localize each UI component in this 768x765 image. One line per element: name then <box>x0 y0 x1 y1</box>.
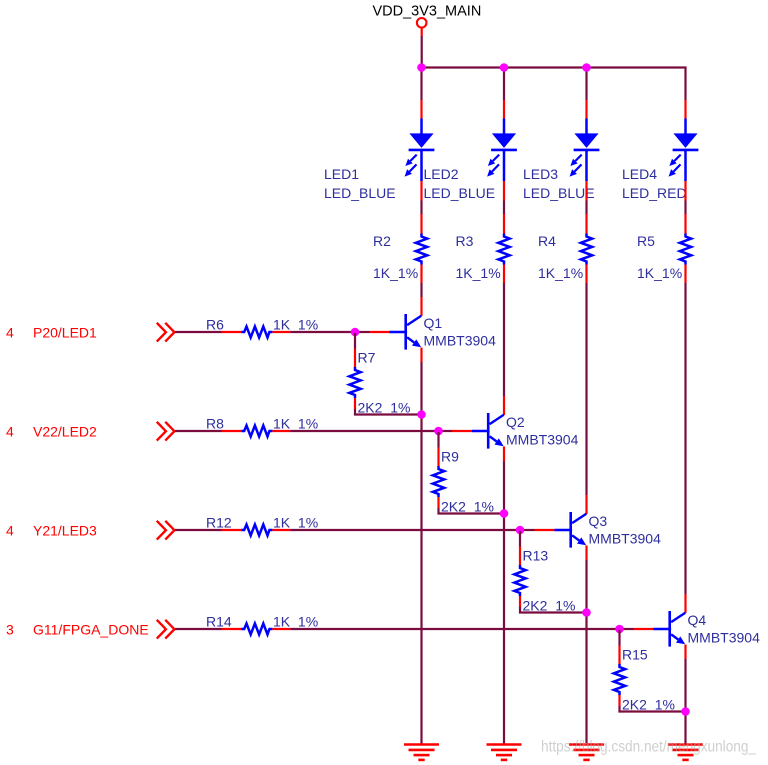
wire VDD vertical to rail <box>421 36 423 68</box>
wire port to R8 <box>175 430 222 432</box>
svg-text:LED_BLUE: LED_BLUE <box>523 185 595 201</box>
wire R13 bottom to emitter column <box>519 611 587 613</box>
wire R14 to Q4 base node <box>291 628 654 630</box>
junction dot rail/column1 <box>417 63 426 72</box>
resistor R2 labels <box>373 233 418 281</box>
resistor R12 1K_1% (series, horizontal) <box>222 525 292 536</box>
LED D1 LED1 symbol <box>405 119 435 182</box>
resistor R3 labels <box>456 233 501 281</box>
wire R6 to Q1 base node <box>291 331 390 333</box>
svg-text:R6: R6 <box>206 317 224 333</box>
wire R15 bottom to emitter column <box>618 710 685 712</box>
net label V22/LED2 <box>33 423 97 439</box>
wire R5 to Q4 collector <box>684 283 686 613</box>
svg-text:VDD_3V3_MAIN: VDD_3V3_MAIN <box>373 4 482 20</box>
svg-text:G11/FPGA_DONE: G11/FPGA_DONE <box>33 621 149 637</box>
resistor R7 labels <box>358 350 411 416</box>
wire LED2 cathode to resistor R3 <box>503 181 505 214</box>
port chevron Y21/LED3 <box>158 522 175 539</box>
svg-text:MMBT3904: MMBT3904 <box>589 530 662 546</box>
svg-text:1K_1%: 1K_1% <box>538 265 583 281</box>
svg-text:Y21/LED3: Y21/LED3 <box>33 522 97 538</box>
svg-text:1K_1%: 1K_1% <box>273 515 318 531</box>
svg-text:1K_1%: 1K_1% <box>273 416 318 432</box>
junction dot R13/emitter <box>582 608 591 617</box>
svg-text:Q3: Q3 <box>589 513 608 529</box>
svg-text:1K_1%: 1K_1% <box>637 265 682 281</box>
svg-text:2K2_1%: 2K2_1% <box>358 400 411 416</box>
wire port to R12 <box>175 529 222 531</box>
wire Q3 emitter to ground <box>585 546 587 745</box>
transistor Q1 MMBT3904 (NPN) <box>390 314 422 350</box>
transistor Q4 labels <box>688 612 761 645</box>
LED D2 LED2 symbol <box>487 119 517 182</box>
net label G11/FPGA_DONE <box>33 621 149 637</box>
junction dot R15/emitter <box>681 707 690 716</box>
svg-text:2K2_1%: 2K2_1% <box>622 697 675 713</box>
svg-text:4: 4 <box>6 522 14 538</box>
LED D3 LED3 symbol <box>570 119 600 182</box>
resistor R8 labels <box>206 416 318 432</box>
svg-text:LED3: LED3 <box>523 166 558 182</box>
transistor Q3 MMBT3904 (NPN) <box>555 512 587 548</box>
resistor R15 labels <box>622 647 675 713</box>
junction dot R7/emitter <box>417 410 426 419</box>
wire LED1 cathode to resistor R2 <box>420 181 422 214</box>
wire column 1 rail to LED1 anode <box>420 68 422 119</box>
port chevron G11/FPGA_DONE <box>158 621 175 638</box>
svg-text:LED_BLUE: LED_BLUE <box>424 185 496 201</box>
svg-text:1K_1%: 1K_1% <box>273 614 318 630</box>
wire R2 to Q1 collector <box>420 283 422 316</box>
svg-text:P20/LED1: P20/LED1 <box>33 324 97 340</box>
svg-text:4: 4 <box>6 423 14 439</box>
junction dot base node Q2 <box>434 427 443 436</box>
resistor R5 labels <box>637 233 682 281</box>
resistor R12 labels <box>206 515 318 531</box>
resistor R4 1K_1% (vertical) <box>581 214 592 283</box>
ground symbol column 1 <box>404 745 439 760</box>
wire Q2 emitter to ground <box>503 447 505 745</box>
wire R8 to Q2 base node <box>291 430 472 432</box>
resistor R3 1K_1% (vertical) <box>498 214 509 283</box>
resistor R5 1K_1% (vertical) <box>680 214 691 283</box>
transistor Q4 MMBT3904 (NPN) <box>654 611 686 647</box>
LED1 name and type labels <box>324 166 396 201</box>
svg-text:LED_BLUE: LED_BLUE <box>324 185 396 201</box>
svg-text:MMBT3904: MMBT3904 <box>424 332 497 348</box>
wire column 3 rail to LED3 anode <box>585 68 587 119</box>
port chevron P20/LED1 <box>158 324 175 341</box>
wire VDD_3V3_MAIN horizontal rail <box>420 66 686 68</box>
svg-text:Q2: Q2 <box>506 414 525 430</box>
wire LED3 cathode to resistor R4 <box>585 181 587 214</box>
resistor R13 labels <box>523 548 576 614</box>
svg-text:R4: R4 <box>538 233 556 249</box>
wire port to R14 <box>175 628 222 630</box>
svg-text:R15: R15 <box>622 647 648 663</box>
resistor R2 1K_1% (vertical) <box>416 214 427 283</box>
svg-text:R3: R3 <box>456 233 474 249</box>
resistor R9 labels <box>441 449 494 515</box>
junction dot base node Q4 <box>615 625 624 634</box>
svg-text:R14: R14 <box>206 614 232 630</box>
svg-text:LED2: LED2 <box>424 166 459 182</box>
svg-text:3: 3 <box>6 621 14 637</box>
svg-text:1K_1%: 1K_1% <box>456 265 501 281</box>
sheet entry number for Y21/LED3 <box>6 522 14 538</box>
power port VDD_3V3_MAIN label <box>373 4 482 20</box>
junction dot R9/emitter <box>500 509 509 518</box>
svg-text:Q1: Q1 <box>424 315 443 331</box>
svg-text:LED1: LED1 <box>324 166 359 182</box>
resistor R6 labels <box>206 317 318 333</box>
svg-text:1K_1%: 1K_1% <box>273 317 318 333</box>
sheet entry number for G11/FPGA_DONE <box>6 621 14 637</box>
ground symbol column 2 <box>487 745 522 760</box>
transistor Q2 labels <box>506 414 579 447</box>
wire column 2 rail to LED2 anode <box>503 68 505 119</box>
svg-text:Q4: Q4 <box>688 612 707 628</box>
svg-text:LED_RED: LED_RED <box>622 185 687 201</box>
resistor R13 2K2_1% (pulldown, vertical) <box>514 531 525 612</box>
svg-text:2K2_1%: 2K2_1% <box>441 499 494 515</box>
wire R4 to Q3 collector <box>585 283 587 514</box>
junction dot rail/column2 <box>500 63 509 72</box>
wire Q1 emitter to ground <box>420 348 422 745</box>
svg-text:R2: R2 <box>373 233 391 249</box>
svg-text:R8: R8 <box>206 416 224 432</box>
sheet entry number for V22/LED2 <box>6 423 14 439</box>
junction dot base node Q3 <box>516 526 525 535</box>
svg-text:MMBT3904: MMBT3904 <box>688 629 761 645</box>
svg-text:R5: R5 <box>637 233 655 249</box>
resistor R7 2K2_1% (pulldown, vertical) <box>349 333 360 414</box>
resistor R8 1K_1% (series, horizontal) <box>222 426 292 437</box>
wire column 4 rail to LED4 anode <box>684 68 686 119</box>
svg-text:R9: R9 <box>441 449 459 465</box>
transistor Q2 MMBT3904 (NPN) <box>472 413 504 449</box>
svg-text:MMBT3904: MMBT3904 <box>506 431 579 447</box>
svg-text:2K2_1%: 2K2_1% <box>523 598 576 614</box>
wire R12 to Q3 base node <box>291 529 555 531</box>
LED D4 LED4 symbol <box>669 119 699 182</box>
LED2 name and type labels <box>424 166 496 201</box>
wire Q4 emitter to ground <box>684 645 686 745</box>
svg-text:1K_1%: 1K_1% <box>373 265 418 281</box>
sheet entry number for P20/LED1 <box>6 324 14 340</box>
resistor R4 labels <box>538 233 583 281</box>
resistor R6 1K_1% (series, horizontal) <box>222 327 292 338</box>
wire port to R6 <box>175 331 222 333</box>
svg-text:4: 4 <box>6 324 14 340</box>
power port VDD_3V3_MAIN circle <box>417 18 427 36</box>
wire LED4 cathode to resistor R5 <box>684 181 686 214</box>
port chevron V22/LED2 <box>158 423 175 440</box>
junction dot base node Q1 <box>351 328 360 337</box>
net label P20/LED1 <box>33 324 97 340</box>
wire R9 bottom to emitter column <box>437 512 504 514</box>
svg-text:R13: R13 <box>523 548 549 564</box>
LED4 name and type labels <box>622 166 687 201</box>
watermark text <box>541 739 757 756</box>
transistor Q3 labels <box>589 513 662 546</box>
ground symbol column 3 <box>569 745 604 760</box>
resistor R14 labels <box>206 614 318 630</box>
junction dot rail/column3 <box>582 63 591 72</box>
svg-text:V22/LED2: V22/LED2 <box>33 423 97 439</box>
resistor R15 2K2_1% (pulldown, vertical) <box>614 630 625 711</box>
resistor R14 1K_1% (series, horizontal) <box>222 624 292 635</box>
svg-text:LED4: LED4 <box>622 166 657 182</box>
resistor R9 2K2_1% (pulldown, vertical) <box>433 432 444 513</box>
svg-text:R7: R7 <box>358 350 376 366</box>
wire R7 bottom to emitter column <box>354 413 422 415</box>
svg-text:R12: R12 <box>206 515 232 531</box>
ground symbol column 4 <box>668 745 703 760</box>
wire R3 to Q2 collector <box>503 283 505 415</box>
LED3 name and type labels <box>523 166 595 201</box>
transistor Q1 labels <box>424 315 497 348</box>
svg-text:https://blog.csdn.net/mengxunl: https://blog.csdn.net/mengxunlong_ <box>541 739 757 756</box>
net label Y21/LED3 <box>33 522 97 538</box>
